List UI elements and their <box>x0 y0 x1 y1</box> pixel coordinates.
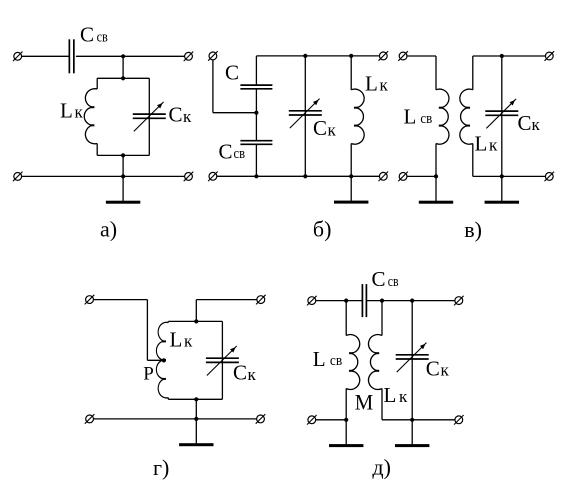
node г tank top junction <box>194 319 198 323</box>
node г tap junction P <box>162 358 166 362</box>
wire в Lсв bottom <box>435 144 437 177</box>
svg-text:св: св <box>97 30 108 46</box>
wire в bottom rail <box>473 175 546 177</box>
inductor Lсв (circuit д) <box>346 335 360 390</box>
wire в bottom-left <box>407 175 436 177</box>
wire г input <box>93 299 147 301</box>
terminal г-in-bottom <box>85 414 95 424</box>
wire д Lсв top lead <box>345 301 347 336</box>
wire б Lк branch bottom <box>350 144 352 177</box>
terminal в-in-bottom <box>398 172 408 182</box>
svg-text:б): б) <box>313 217 332 242</box>
node б top junction Cк <box>303 54 307 58</box>
wire б input drop <box>212 60 214 113</box>
node в top junction <box>500 54 504 58</box>
terminal а-in-top <box>13 52 23 62</box>
node в Lсв bottom junction <box>434 174 438 178</box>
wire в top-left <box>407 55 436 57</box>
svg-text:к: к <box>75 103 84 122</box>
ground (circuit а) <box>122 176 124 201</box>
svg-text:в): в) <box>464 217 482 242</box>
wire а cap branch <box>148 78 150 155</box>
wire г top output <box>195 300 197 322</box>
wire а tank to bottom rail <box>122 155 124 176</box>
svg-text:св: св <box>388 274 399 290</box>
wire в top rail <box>473 55 546 57</box>
svg-text:к: к <box>248 365 257 384</box>
node д top junction Lсв <box>344 299 348 303</box>
ground (circuit в, right) <box>501 176 503 201</box>
wire а junction to tank top <box>122 56 124 78</box>
terminal б-out-bottom <box>379 172 389 182</box>
wire б C branch middle <box>255 89 257 141</box>
wire д top rail left <box>316 300 362 302</box>
wire г tank top <box>168 320 222 322</box>
node д top junction Cк <box>410 299 414 303</box>
svg-text:к: к <box>183 107 192 126</box>
inductor Lсв (circuit в) <box>436 89 449 144</box>
terminal д-out-top <box>454 296 464 306</box>
wire д Lсв bottom lead <box>345 389 347 420</box>
wire д Lк bottom lead <box>381 389 383 420</box>
node а tank top junction <box>121 76 125 80</box>
svg-text:L: L <box>365 71 378 95</box>
svg-text:к: к <box>532 115 541 134</box>
wire в Lк bottom lead <box>472 144 474 177</box>
wire г tank bottom <box>167 398 169 400</box>
svg-text:C: C <box>426 356 440 380</box>
wire д top rail right <box>367 300 455 302</box>
svg-text:св: св <box>420 111 432 127</box>
wire а bottom rail <box>22 175 185 177</box>
svg-text:к: к <box>399 387 408 406</box>
svg-text:св: св <box>330 353 342 369</box>
svg-text:к: к <box>184 332 193 351</box>
ground (circuit г) <box>195 419 197 444</box>
node б top junction Lк <box>349 54 353 58</box>
node а tank bottom junction <box>121 153 125 157</box>
node б bottom junction C <box>254 174 258 178</box>
terminal а-out-top <box>184 52 194 62</box>
svg-text:L: L <box>313 347 326 371</box>
wire а coil top lead <box>96 78 98 89</box>
capacitor C (circuit б) <box>240 84 272 86</box>
svg-text:C: C <box>372 267 386 291</box>
svg-text:а): а) <box>100 217 117 242</box>
terminal д-in-top <box>307 296 317 306</box>
terminal б-in-top <box>208 51 218 61</box>
terminal а-in-bottom <box>13 172 23 182</box>
node б bottom junction Cк <box>303 174 307 178</box>
capacitor Cк variable (circuit д) <box>396 354 429 356</box>
wire г Cк branch <box>221 321 223 399</box>
svg-text:к: к <box>441 360 450 379</box>
svg-text:L: L <box>60 99 73 123</box>
inductor Lк tapped (circuit г) <box>156 322 168 398</box>
node б mid junction <box>254 111 258 115</box>
capacitor Cсв (circuit а) <box>68 39 70 73</box>
wire б bottom rail <box>217 175 380 177</box>
ground (circuit в, left) <box>435 176 437 201</box>
svg-text:C: C <box>169 102 183 126</box>
wire б top rail <box>256 55 379 57</box>
wire в Lк top lead <box>472 56 474 90</box>
node б bottom junction Lк <box>349 174 353 178</box>
capacitor Cсв (circuit б) <box>240 140 272 142</box>
capacitor Cк variable (circuit а) <box>133 113 166 115</box>
inductor Lк (circuit б) <box>351 89 364 144</box>
node д bottom junction Lсв <box>344 418 348 422</box>
svg-text:L: L <box>475 131 488 155</box>
wire а tank bottom <box>97 154 149 156</box>
svg-text:L: L <box>404 104 417 128</box>
svg-text:C: C <box>219 139 233 163</box>
terminal в-out-top <box>545 51 555 61</box>
inductor Lк (circuit в) <box>460 89 473 144</box>
capacitor Cк variable (circuit б) <box>289 110 322 112</box>
ground (circuit б) <box>350 176 352 201</box>
ground (circuit д, left) <box>345 420 347 445</box>
wire в Cк branch <box>501 56 503 176</box>
terminal г-out-top <box>256 295 266 305</box>
capacitor Cк variable (circuit в) <box>485 110 518 112</box>
wire а tank top <box>97 77 149 79</box>
node в bottom junction <box>500 174 504 178</box>
wire д Cк branch <box>411 301 413 420</box>
terminal в-out-bottom <box>545 172 555 182</box>
wire б Lк branch top <box>350 56 352 90</box>
terminal д-in-bottom <box>307 415 317 425</box>
wire а top-right <box>76 55 185 57</box>
svg-text:св: св <box>234 146 246 162</box>
capacitor Cсв (circuit д) <box>361 284 363 317</box>
wire б C branch lower <box>255 144 257 176</box>
terminal б-out-top <box>379 51 389 61</box>
svg-text:C: C <box>80 23 94 47</box>
terminal д-out-bottom <box>454 415 464 425</box>
terminal г-in-top <box>85 295 95 305</box>
node а bottom junction <box>121 174 125 178</box>
wire г bottom rail <box>94 418 257 420</box>
node г bottom junction <box>194 417 198 421</box>
svg-text:L: L <box>170 327 183 351</box>
wire б Cк branch <box>304 56 306 176</box>
node д bottom junction Cк <box>410 418 414 422</box>
inductor Lк (circuit д) <box>368 335 382 390</box>
ground (circuit д, right) <box>411 420 413 445</box>
svg-text:L: L <box>384 383 397 407</box>
svg-text:C: C <box>233 361 247 385</box>
wire а coil bottom lead <box>96 144 98 156</box>
svg-text:C: C <box>313 116 327 140</box>
node г tank bottom junction <box>194 397 198 401</box>
svg-text:к: к <box>489 136 498 155</box>
inductor Lк (circuit а) <box>84 89 97 144</box>
capacitor Cк variable (circuit г) <box>206 357 239 359</box>
terminal г-out-bottom <box>256 414 266 424</box>
svg-text:M: M <box>355 390 374 415</box>
terminal в-in-top <box>398 51 408 61</box>
svg-text:P: P <box>143 363 154 384</box>
wire г tank to rail <box>195 399 197 419</box>
wire д bottom rail right <box>412 419 455 421</box>
node д top junction Lк <box>380 299 384 303</box>
wire д Lк top lead <box>381 301 383 336</box>
node а top junction <box>121 54 125 58</box>
svg-text:C: C <box>518 111 532 135</box>
svg-text:д): д) <box>372 455 391 480</box>
terminal а-out-bottom <box>184 172 194 182</box>
wire д bottom rail left <box>316 419 347 421</box>
wire б C branch upper <box>255 56 257 85</box>
svg-text:к: к <box>328 121 337 140</box>
svg-text:г): г) <box>153 455 169 480</box>
wire а top-left <box>22 55 69 57</box>
svg-text:к: к <box>380 76 389 95</box>
terminal б-in-bottom <box>208 172 218 182</box>
svg-text:C: C <box>225 61 239 85</box>
